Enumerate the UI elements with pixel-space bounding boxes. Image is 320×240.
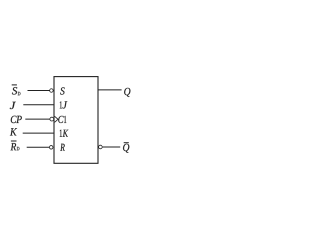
pin label R — [60, 144, 65, 151]
inversion bubble Q-bar output — [99, 145, 103, 149]
overline of RD-bar label — [11, 140, 17, 142]
wire J input — [23, 104, 54, 106]
label S of SD-bar input — [12, 87, 17, 94]
pin label 1 of C1 — [64, 116, 66, 123]
overline of Q-bar label — [124, 142, 129, 144]
label D subscript of RD-bar — [17, 147, 20, 150]
pin label S — [60, 87, 64, 94]
pin label 1 of 1J — [60, 101, 62, 108]
pin label J of 1J — [63, 101, 68, 108]
wire RD-bar input — [27, 146, 50, 148]
label C of CP input — [11, 116, 17, 123]
label Q output — [124, 88, 130, 97]
label P of CP input — [16, 116, 22, 123]
label R of RD-bar input — [11, 143, 17, 150]
label K input — [10, 128, 17, 135]
wire Q-bar output — [103, 146, 121, 148]
wire SD-bar input — [28, 90, 50, 92]
label Q of Q-bar output — [123, 144, 129, 153]
inversion bubble R input — [49, 146, 53, 150]
label D subscript of SD-bar — [18, 92, 21, 95]
dynamic-input triangle C1 — [55, 116, 58, 122]
flip-flop body U1 — [54, 77, 98, 164]
inversion bubble CP input — [50, 117, 54, 121]
pin label 1 of 1K — [60, 130, 62, 137]
overline of SD-bar label — [12, 84, 17, 86]
pin label K of 1K — [63, 130, 69, 137]
inversion bubble S input — [50, 89, 54, 93]
wire Q output — [98, 89, 121, 91]
label J input — [10, 102, 16, 109]
wire K input — [23, 132, 54, 134]
wire CP input — [25, 118, 50, 120]
pin label C of C1 — [58, 116, 63, 123]
